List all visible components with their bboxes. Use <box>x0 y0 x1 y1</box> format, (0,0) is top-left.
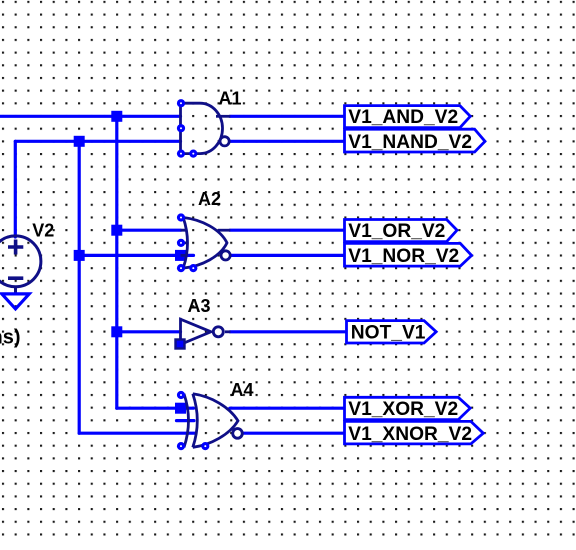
A4 XNOR bubble <box>233 429 243 439</box>
flag NOT_V1 <box>347 321 437 344</box>
junction at A2 In4 pin <box>175 250 186 261</box>
svg-text:V1_OR_V2: V1_OR_V2 <box>348 221 445 242</box>
flag V1_OR_V2 <box>345 220 458 242</box>
svg-text:V1_NAND_V2: V1_NAND_V2 <box>348 132 472 153</box>
wire V1 to A2 input <box>117 229 181 232</box>
A1 pin COM <box>189 150 197 158</box>
wire V1 to A3 input <box>117 330 181 333</box>
A1 pin In5 <box>177 150 185 158</box>
flag V1_NOR_V2 <box>345 243 472 267</box>
svg-text:ns): ns) <box>0 327 21 349</box>
A2 NOR bubble <box>221 251 230 260</box>
wire A3 NOT output to flag <box>230 330 347 333</box>
flag V1_AND_V2 <box>345 106 471 128</box>
A2 pin In5 <box>177 264 185 272</box>
flag V1_XOR_V2 <box>345 397 471 420</box>
junction at A4 In2 pin <box>175 403 186 414</box>
flag V1_XNOR_V2 <box>345 421 484 444</box>
wire A2 NOR output to flag <box>230 254 344 257</box>
A4 pin In5 <box>177 442 185 450</box>
wire A4 XNOR output to flag <box>244 432 345 435</box>
junction at V1 bus top <box>111 111 122 122</box>
junction at V2 bus top <box>74 136 85 147</box>
gate A1 AND body <box>181 103 231 153</box>
A3 output lead <box>225 330 230 333</box>
A1 pin In3 <box>177 124 185 132</box>
A2 pin COM <box>189 264 197 272</box>
svg-text:A4: A4 <box>231 380 254 400</box>
svg-text:V1_XNOR_V2: V1_XNOR_V2 <box>348 424 472 445</box>
A1 NAND bubble <box>220 137 229 146</box>
svg-text:V2: V2 <box>32 221 54 241</box>
junction V2 to A2 <box>74 250 85 261</box>
gate A4 XOR body <box>184 394 238 448</box>
gate A2 OR body <box>181 218 231 269</box>
A3 NOT bubble <box>213 327 223 337</box>
A2 pin In1 <box>177 213 185 221</box>
A1 pin In1 <box>177 99 185 107</box>
svg-text:V1_XOR_V2: V1_XOR_V2 <box>348 399 458 420</box>
wire A1 AND output to flag <box>230 115 345 118</box>
wire V1 vertical bus <box>115 116 118 408</box>
svg-text:NOT_V1: NOT_V1 <box>351 322 426 343</box>
wire V2 source drop <box>14 141 17 237</box>
svg-text:A3: A3 <box>188 296 211 316</box>
A4 pin COM <box>201 442 209 450</box>
wire A1 NAND output to flag <box>229 140 344 143</box>
junction V1 to A2 <box>111 225 122 236</box>
ground <box>2 294 29 309</box>
wire V1 horizontal to A1 input <box>0 115 181 118</box>
svg-text:A1: A1 <box>219 88 242 108</box>
A3 pin COM square <box>176 340 185 349</box>
voltage source V2 <box>0 236 41 294</box>
A4 pin In1 <box>177 391 185 399</box>
flag V1_NAND_V2 <box>345 129 486 153</box>
wire A2 OR output to flag <box>230 229 345 232</box>
gate A3 inverter body <box>181 319 212 344</box>
wire V2 vertical bus <box>78 141 81 433</box>
wire stub A4 In3 <box>177 419 195 422</box>
svg-text:V1_AND_V2: V1_AND_V2 <box>348 107 458 128</box>
A2 pin In3 <box>177 239 185 247</box>
wire A4 XOR output to flag <box>230 407 345 410</box>
wire V2 to A2 input <box>79 254 193 257</box>
wire V1 to A4 input <box>117 407 194 410</box>
wire V2 to A4 input <box>79 432 195 435</box>
svg-text:V1_NOR_V2: V1_NOR_V2 <box>348 246 459 267</box>
wire V2 horizontal to A1 lower input <box>15 140 180 143</box>
junction V1 to A3 <box>111 326 122 337</box>
svg-text:A2: A2 <box>198 189 221 209</box>
